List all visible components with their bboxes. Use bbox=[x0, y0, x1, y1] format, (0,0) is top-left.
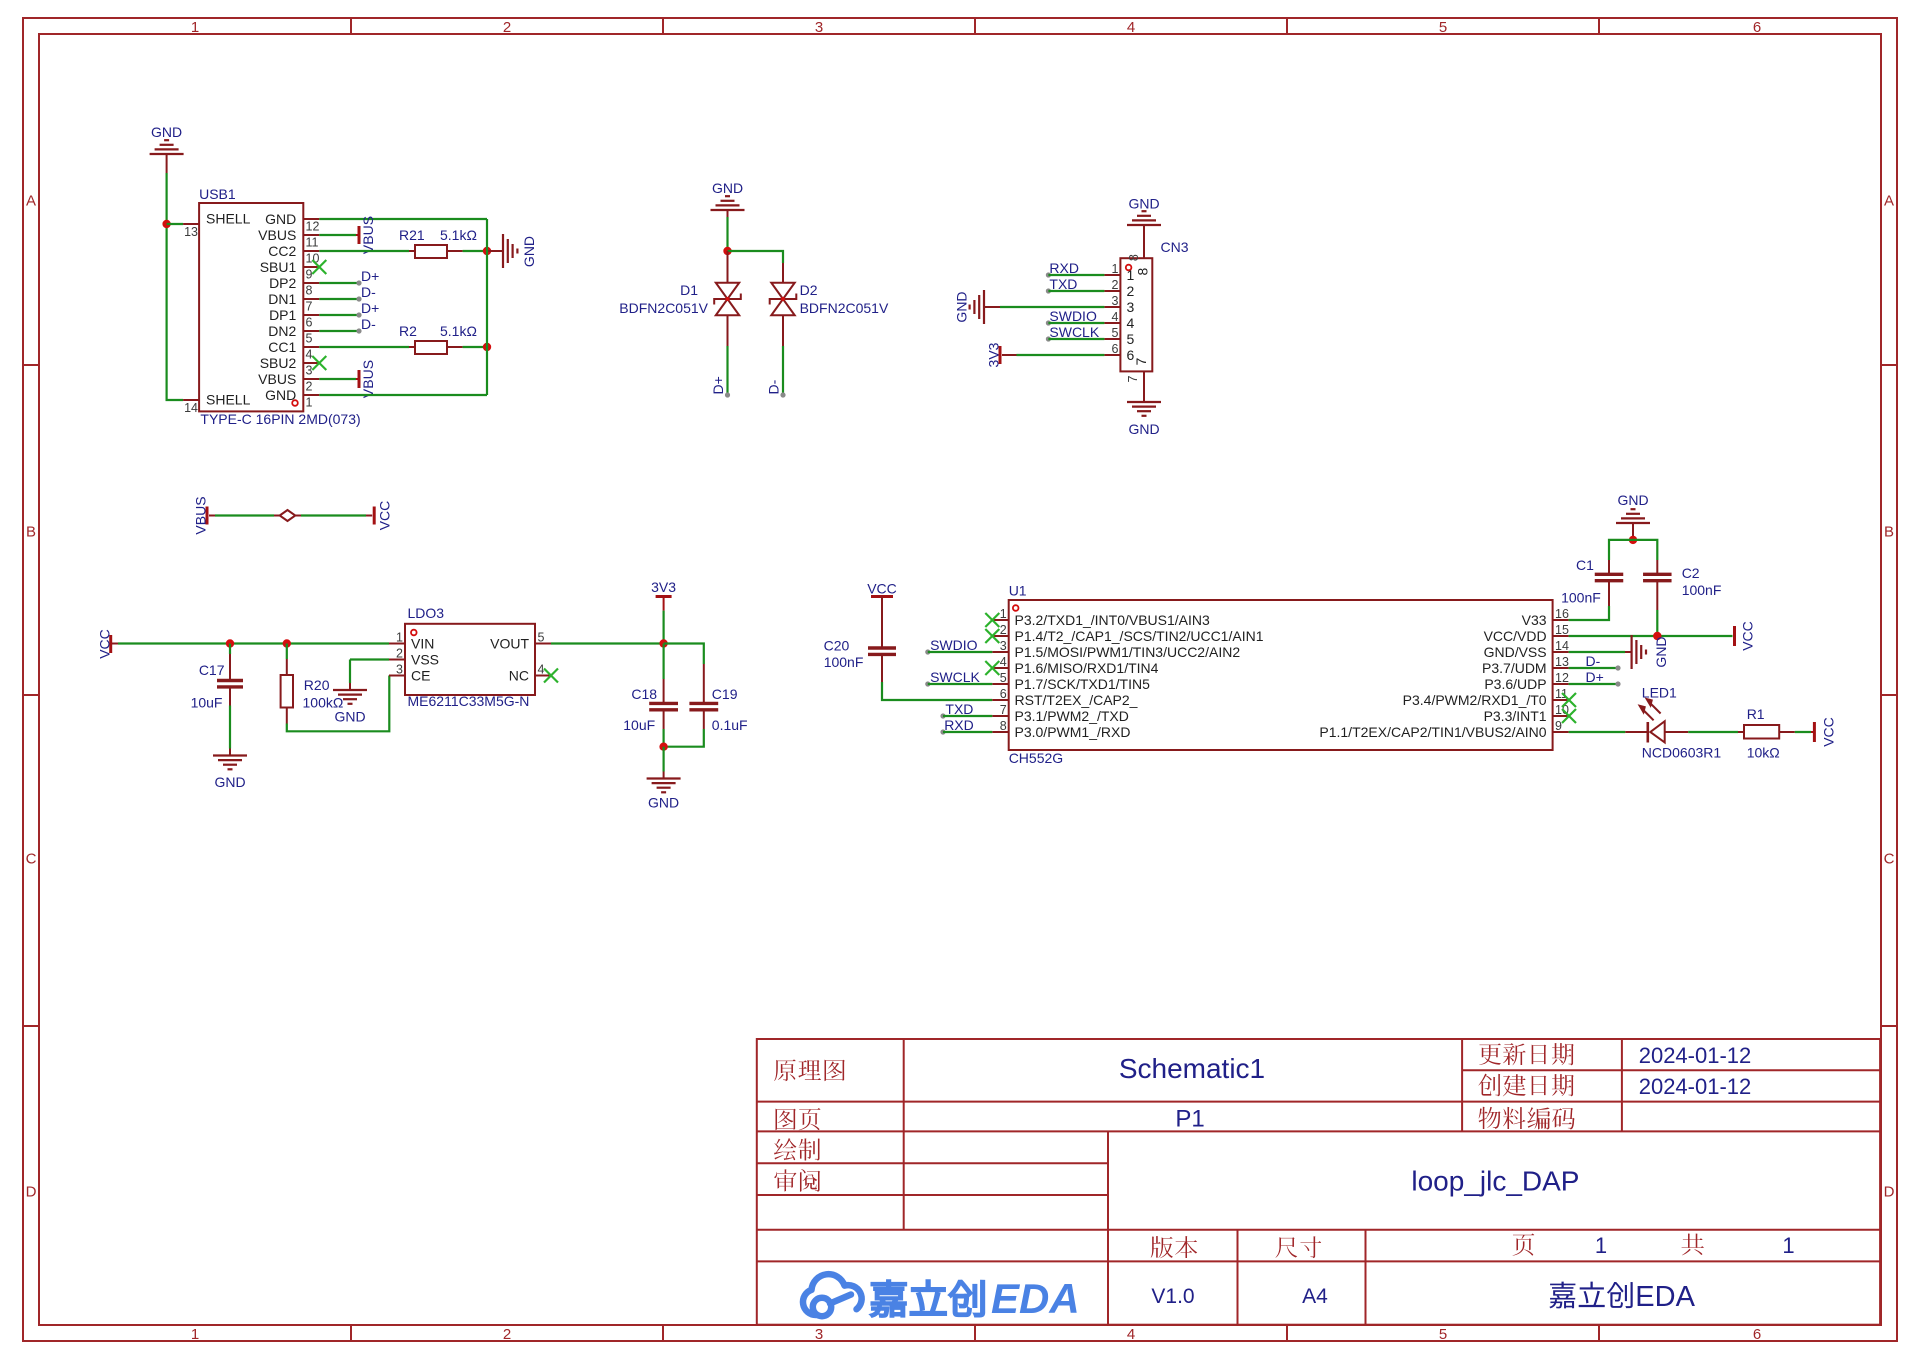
svg-text:GND: GND bbox=[712, 180, 743, 196]
svg-text:C17: C17 bbox=[199, 662, 225, 678]
svg-text:D-: D- bbox=[361, 316, 376, 332]
capacitor C17 bbox=[191, 662, 243, 711]
svg-text:7: 7 bbox=[306, 299, 313, 313]
power flag VCC (LDO input) bbox=[97, 629, 113, 659]
power flag VCC (U1) bbox=[1735, 621, 1756, 651]
wire C2 to VCC/VDD bbox=[1656, 581, 1658, 636]
svg-text:14: 14 bbox=[184, 401, 198, 415]
wire 3V3 down bbox=[662, 611, 664, 644]
svg-text:BDFN2C051V: BDFN2C051V bbox=[619, 300, 708, 316]
capacitor C1 bbox=[1561, 557, 1623, 606]
svg-text:4: 4 bbox=[1127, 19, 1135, 36]
title label 创建日期 bbox=[1478, 1074, 1500, 1097]
svg-text:GND: GND bbox=[214, 774, 245, 790]
svg-text:2: 2 bbox=[1127, 283, 1135, 299]
wire 3V3 to CN3 pin6 bbox=[1002, 354, 1104, 356]
diode D2 BDFN2C051V (TVS) bbox=[770, 282, 889, 316]
node junction above D1 bbox=[723, 247, 731, 255]
svg-text:5: 5 bbox=[538, 631, 545, 645]
svg-text:C19: C19 bbox=[712, 686, 738, 702]
power flag 3V3 (CN3 pin6) bbox=[985, 342, 1001, 367]
wire netflag to VCC bbox=[295, 515, 372, 517]
wire SWCLK to U1 pin5 bbox=[925, 681, 992, 686]
svg-text:5.1kΩ: 5.1kΩ bbox=[440, 323, 477, 339]
wire R1 to VCC bbox=[1779, 731, 1813, 733]
LED LED1 NCD0603R1 bbox=[1638, 685, 1722, 761]
svg-text:5: 5 bbox=[1000, 671, 1007, 685]
title label 更新日期 bbox=[1479, 1043, 1501, 1064]
node junction below C18 bbox=[659, 743, 667, 751]
svg-text:EDA: EDA bbox=[991, 1275, 1080, 1322]
svg-text:P3.4/PWM2/RXD1_/T0: P3.4/PWM2/RXD1_/T0 bbox=[1403, 692, 1547, 708]
ground above CN3 bbox=[1127, 196, 1161, 233]
svg-text:4: 4 bbox=[1127, 315, 1135, 331]
svg-text:SWCLK: SWCLK bbox=[930, 669, 980, 685]
svg-text:R21: R21 bbox=[399, 227, 425, 243]
svg-text:2: 2 bbox=[1111, 278, 1118, 292]
svg-text:SWDIO: SWDIO bbox=[930, 637, 978, 653]
wire D+ stub pin8 bbox=[319, 268, 379, 286]
connector CN3 bbox=[1104, 239, 1188, 382]
svg-text:GND: GND bbox=[954, 291, 970, 322]
wire SWCLK to CN3 pin5 bbox=[1046, 336, 1105, 341]
svg-text:13: 13 bbox=[1555, 655, 1569, 669]
ground at U1 GND/VSS bbox=[1625, 635, 1669, 669]
svg-text:BDFN2C051V: BDFN2C051V bbox=[800, 300, 889, 316]
svg-text:10uF: 10uF bbox=[191, 695, 223, 711]
power flag 3V3 (LDO output) bbox=[651, 579, 676, 611]
node junction R21/bus bbox=[483, 247, 491, 255]
svg-text:5: 5 bbox=[1439, 1326, 1447, 1343]
wire CC1 pin4 to R2 bbox=[319, 346, 415, 348]
svg-text:P3.0/PWM1_/RXD: P3.0/PWM1_/RXD bbox=[1015, 724, 1131, 740]
svg-text:P3.3/INT1: P3.3/INT1 bbox=[1484, 708, 1547, 724]
no-connect X on LDO3 NC pin4 bbox=[544, 669, 558, 683]
wire RXD to CN3 pin1 bbox=[1046, 272, 1105, 277]
svg-text:GND: GND bbox=[334, 709, 365, 725]
svg-text:VCC/VDD: VCC/VDD bbox=[1484, 628, 1547, 644]
svg-text:GND: GND bbox=[1653, 636, 1669, 667]
no-connect X on U1 pin4 bbox=[985, 661, 999, 675]
svg-text:NCD0603R1: NCD0603R1 bbox=[1642, 745, 1722, 761]
wire LED1 to R1 bbox=[1665, 731, 1744, 733]
title label 绘制 bbox=[774, 1138, 796, 1160]
svg-text:DP1: DP1 bbox=[269, 307, 296, 323]
svg-text:R20: R20 bbox=[304, 677, 330, 693]
wire VOUT to 3V3 node bbox=[551, 642, 664, 644]
svg-text:1: 1 bbox=[396, 631, 403, 645]
svg-text:P3.2/TXD1_/INT0/VBUS1/AIN3: P3.2/TXD1_/INT0/VBUS1/AIN3 bbox=[1015, 612, 1211, 628]
no-connect X on U1 pin2 bbox=[985, 629, 999, 643]
regulator LDO3 ME6211C33M5G-N bbox=[389, 605, 551, 709]
ground below C17 bbox=[213, 749, 247, 791]
svg-text:SBU2: SBU2 bbox=[260, 355, 297, 371]
power flag VBUS (pin2) bbox=[356, 360, 376, 398]
svg-text:VSS: VSS bbox=[411, 652, 439, 668]
svg-text:D: D bbox=[1884, 1184, 1895, 1201]
netflag diamond (VBUS-VCC tie) bbox=[280, 510, 296, 521]
wire junction to D2 top bbox=[728, 251, 784, 263]
wire to C19 branch bbox=[664, 644, 704, 665]
svg-text:6: 6 bbox=[306, 315, 313, 329]
title value 嘉立创EDA (cell) bbox=[1549, 1282, 1575, 1309]
svg-text:TYPE-C 16PIN 2MD(073): TYPE-C 16PIN 2MD(073) bbox=[200, 411, 360, 427]
svg-text:GND: GND bbox=[265, 211, 296, 227]
power flag VBUS (pin11) bbox=[356, 216, 376, 254]
wire D- stub pin7 bbox=[319, 284, 376, 302]
svg-text:16: 16 bbox=[1555, 607, 1569, 621]
svg-text:P1.1/T2EX/CAP2/TIN1/VBUS2/AIN0: P1.1/T2EX/CAP2/TIN1/VBUS2/AIN0 bbox=[1319, 724, 1546, 740]
wire RXD to U1 pin8 bbox=[940, 729, 992, 734]
wire C20 to RST bbox=[882, 654, 992, 700]
svg-text:SBU1: SBU1 bbox=[260, 259, 297, 275]
wire CC2 pin10 to R21 bbox=[319, 250, 415, 252]
connector USB1 TYPE-C 16PIN bbox=[183, 186, 361, 427]
wire VCC to LDO3 VIN bbox=[112, 643, 389, 645]
svg-text:3: 3 bbox=[306, 363, 313, 377]
svg-text:VBUS: VBUS bbox=[258, 227, 296, 243]
svg-text:TXD: TXD bbox=[945, 701, 973, 717]
svg-text:CC2: CC2 bbox=[268, 243, 296, 259]
svg-text:D-: D- bbox=[766, 379, 782, 394]
svg-text:R2: R2 bbox=[399, 323, 417, 339]
wire VCC to C20 bbox=[881, 597, 883, 649]
resistor R2 bbox=[399, 323, 477, 354]
svg-text:2024-01-12: 2024-01-12 bbox=[1639, 1043, 1752, 1068]
no-connect X on U1 pin1 bbox=[985, 613, 999, 627]
wire R21 to bus bbox=[447, 250, 487, 252]
wire GND to D1 junction bbox=[726, 217, 728, 251]
svg-text:D+: D+ bbox=[361, 268, 379, 284]
svg-text:D+: D+ bbox=[1586, 669, 1604, 685]
svg-text:P1.5/MOSI/PWM1/TIN3/UCC2/AIN2: P1.5/MOSI/PWM1/TIN3/UCC2/AIN2 bbox=[1015, 644, 1241, 660]
svg-text:DN1: DN1 bbox=[268, 291, 296, 307]
wire R20 top bbox=[286, 644, 288, 676]
svg-text:1: 1 bbox=[1127, 267, 1135, 283]
ground at LDO3 VSS bbox=[333, 683, 367, 725]
wire TXD to CN3 pin2 bbox=[1046, 288, 1105, 293]
wire D+ stub pin6 bbox=[319, 300, 379, 318]
svg-text:C2: C2 bbox=[1682, 565, 1700, 581]
svg-text:14: 14 bbox=[1555, 639, 1569, 653]
ground below C18/C19 bbox=[647, 772, 681, 811]
wire GND to CN3 pin3 bbox=[1000, 306, 1104, 308]
svg-text:B: B bbox=[26, 524, 36, 541]
svg-text:A: A bbox=[26, 193, 36, 210]
svg-text:D+: D+ bbox=[710, 376, 726, 394]
power flag VCC (C20) bbox=[867, 581, 897, 597]
no-connect X on U1 pin11 bbox=[1562, 693, 1576, 707]
wire U1 pin9 to LED1 bbox=[1569, 731, 1648, 733]
wire C17 top bbox=[229, 644, 231, 681]
wire C18 top bbox=[662, 644, 664, 704]
wire C1 to V33 bbox=[1569, 581, 1609, 620]
svg-text:VCC: VCC bbox=[867, 581, 897, 597]
node junction at SHELL pin13 bbox=[162, 220, 170, 228]
wire D2 to D- node bbox=[780, 315, 785, 397]
wire C17 bottom bbox=[229, 687, 231, 749]
svg-text:RST/T2EX_/CAP2_: RST/T2EX_/CAP2_ bbox=[1015, 692, 1138, 708]
svg-text:CH552G: CH552G bbox=[1009, 750, 1063, 766]
svg-text:DN2: DN2 bbox=[268, 323, 296, 339]
wire R20 bottom to CE bbox=[287, 676, 390, 732]
wire D- stub pin5 bbox=[319, 316, 376, 334]
svg-text:VBUS: VBUS bbox=[258, 371, 296, 387]
IC U1 CH552G bbox=[992, 583, 1569, 767]
wire VSS to ground bbox=[350, 660, 389, 684]
node junction R2/bus bbox=[483, 343, 491, 351]
power flag VCC (jumper) bbox=[374, 501, 392, 531]
svg-text:7: 7 bbox=[1126, 375, 1140, 382]
wire GND/VSS bbox=[1569, 651, 1625, 653]
svg-text:3V3: 3V3 bbox=[985, 342, 1001, 367]
svg-text:DP2: DP2 bbox=[269, 275, 296, 291]
wire C18 bottom bbox=[663, 710, 665, 747]
resistor R21 bbox=[399, 227, 477, 258]
svg-text:C1: C1 bbox=[1576, 557, 1594, 573]
svg-text:1: 1 bbox=[306, 395, 313, 409]
svg-text:CN3: CN3 bbox=[1161, 239, 1189, 255]
svg-text:4: 4 bbox=[1000, 655, 1007, 669]
svg-text:CE: CE bbox=[411, 668, 430, 684]
svg-text:P1.6/MISO/RXD1/TIN4: P1.6/MISO/RXD1/TIN4 bbox=[1015, 660, 1159, 676]
wire D1 to D+ node bbox=[725, 315, 730, 397]
svg-text:V33: V33 bbox=[1522, 612, 1547, 628]
svg-text:P3.1/PWM2_/TXD: P3.1/PWM2_/TXD bbox=[1015, 708, 1129, 724]
svg-text:P1.4/T2_/CAP1_/SCS/TIN2/UCC1/A: P1.4/T2_/CAP1_/SCS/TIN2/UCC1/AIN1 bbox=[1015, 628, 1264, 644]
node junction above C1/C2 bbox=[1629, 536, 1637, 544]
svg-text:LED1: LED1 bbox=[1642, 685, 1677, 701]
svg-text:2: 2 bbox=[396, 647, 403, 661]
svg-text:8: 8 bbox=[306, 283, 313, 297]
resistor R1 bbox=[1744, 706, 1780, 761]
svg-text:VCC: VCC bbox=[1821, 717, 1837, 747]
wire GND pin1 to bus bbox=[319, 394, 487, 396]
svg-text:2: 2 bbox=[503, 19, 511, 36]
svg-text:2024-01-12: 2024-01-12 bbox=[1639, 1074, 1752, 1099]
svg-text:P3.6/UDP: P3.6/UDP bbox=[1484, 676, 1546, 692]
svg-text:9: 9 bbox=[306, 267, 313, 281]
svg-text:6: 6 bbox=[1127, 347, 1135, 363]
svg-text:LDO3: LDO3 bbox=[408, 605, 445, 621]
JLCEDA logo bbox=[803, 1274, 1080, 1322]
svg-text:5: 5 bbox=[306, 331, 313, 345]
title label 原理图 bbox=[774, 1059, 795, 1081]
svg-text:VBUS: VBUS bbox=[360, 360, 376, 398]
svg-text:3V3: 3V3 bbox=[651, 579, 676, 595]
node junction C2/VCC bbox=[1653, 632, 1661, 640]
title label 物料编码 bbox=[1479, 1107, 1501, 1129]
wire right vertical bus bbox=[486, 219, 488, 395]
ground left of CN3 pin3 bbox=[954, 290, 1001, 324]
svg-text:D-: D- bbox=[1586, 653, 1601, 669]
svg-text:3: 3 bbox=[396, 663, 403, 677]
wire VBUS pin11 bbox=[319, 234, 356, 236]
no-connect X on U1 pin10 bbox=[1562, 709, 1576, 723]
svg-text:GND: GND bbox=[1128, 196, 1159, 212]
svg-text:3: 3 bbox=[1000, 639, 1007, 653]
svg-text:5: 5 bbox=[1127, 331, 1135, 347]
svg-text:1: 1 bbox=[191, 19, 199, 36]
wire junction to C2 bbox=[1633, 540, 1657, 560]
svg-text:V1.0: V1.0 bbox=[1151, 1285, 1194, 1308]
wire C19 bottom bbox=[664, 710, 704, 747]
svg-text:D: D bbox=[26, 1184, 37, 1201]
svg-text:5: 5 bbox=[1111, 326, 1118, 340]
svg-text:P3.7/UDM: P3.7/UDM bbox=[1482, 660, 1547, 676]
wire R2 to bus bbox=[447, 346, 487, 348]
title block table bbox=[757, 1039, 1880, 1325]
svg-text:9: 9 bbox=[1555, 719, 1562, 733]
svg-text:C20: C20 bbox=[824, 638, 850, 654]
svg-text:4: 4 bbox=[1127, 1326, 1135, 1343]
svg-text:Schematic1: Schematic1 bbox=[1119, 1053, 1265, 1084]
svg-text:VCC: VCC bbox=[377, 501, 393, 531]
svg-text:C: C bbox=[1884, 851, 1895, 868]
svg-text:USB1: USB1 bbox=[199, 186, 236, 202]
ground above C1/C2 bbox=[1616, 492, 1650, 530]
svg-text:SWCLK: SWCLK bbox=[1049, 324, 1099, 340]
svg-text:CC1: CC1 bbox=[268, 339, 296, 355]
svg-text:VCC: VCC bbox=[97, 629, 113, 659]
svg-text:GND: GND bbox=[265, 387, 296, 403]
svg-text:C: C bbox=[26, 851, 37, 868]
svg-text:D-: D- bbox=[361, 284, 376, 300]
wire SWDIO to U1 pin3 bbox=[925, 649, 992, 654]
svg-text:NC: NC bbox=[509, 668, 529, 684]
svg-text:8: 8 bbox=[1134, 267, 1150, 275]
svg-text:1: 1 bbox=[1782, 1233, 1794, 1258]
svg-text:U1: U1 bbox=[1009, 583, 1027, 599]
svg-text:3: 3 bbox=[1111, 294, 1118, 308]
ground above D1 bbox=[711, 180, 745, 217]
power flag VBUS (jumper) bbox=[193, 496, 209, 534]
node junction at R20 bbox=[283, 639, 291, 647]
svg-text:6: 6 bbox=[1111, 342, 1118, 356]
svg-text:D1: D1 bbox=[680, 282, 698, 298]
svg-text:3: 3 bbox=[815, 1326, 823, 1343]
wire SWDIO to CN3 pin4 bbox=[1046, 320, 1105, 325]
capacitor C18 bbox=[623, 686, 678, 733]
svg-text:B: B bbox=[1884, 524, 1894, 541]
svg-text:11: 11 bbox=[306, 235, 319, 249]
wire/pin8 stub top of CN3 bbox=[1143, 232, 1145, 258]
wire junction to D1 top bbox=[727, 251, 729, 283]
power flag VCC (R1) bbox=[1814, 717, 1836, 747]
svg-text:loop_jlc_DAP: loop_jlc_DAP bbox=[1411, 1166, 1579, 1197]
wire VBUS pin2 bbox=[319, 378, 356, 380]
svg-text:GND: GND bbox=[151, 124, 182, 140]
svg-text:A4: A4 bbox=[1302, 1285, 1328, 1308]
wire D- to P3.7/UDM bbox=[1569, 665, 1621, 670]
svg-text:7: 7 bbox=[1000, 703, 1007, 717]
wire to ground below C18 bbox=[662, 747, 664, 772]
svg-text:1: 1 bbox=[191, 1326, 199, 1343]
node junction 3V3/VOUT bbox=[659, 639, 667, 647]
ground below CN3 bbox=[1127, 395, 1161, 437]
svg-text:5: 5 bbox=[1439, 19, 1447, 36]
svg-text:1: 1 bbox=[1000, 607, 1007, 621]
svg-text:10kΩ: 10kΩ bbox=[1747, 745, 1780, 761]
ground (top-left GND net flag) bbox=[150, 124, 184, 161]
node junction at C17 bbox=[226, 639, 234, 647]
svg-text:GND/VSS: GND/VSS bbox=[1484, 644, 1547, 660]
svg-text:15: 15 bbox=[1555, 623, 1569, 637]
svg-text:6: 6 bbox=[1000, 687, 1007, 701]
svg-text:SWDIO: SWDIO bbox=[1049, 308, 1097, 324]
wire gnd stem to junction bbox=[1632, 530, 1634, 540]
svg-text:1: 1 bbox=[1111, 262, 1118, 276]
svg-text:10: 10 bbox=[306, 251, 320, 265]
svg-text:8: 8 bbox=[1127, 254, 1141, 261]
capacitor C19 bbox=[689, 664, 747, 733]
svg-text:100nF: 100nF bbox=[1682, 582, 1722, 598]
title label 共 bbox=[1682, 1233, 1704, 1255]
svg-text:8: 8 bbox=[1000, 719, 1007, 733]
title label 图页 bbox=[775, 1109, 795, 1131]
svg-text:GND: GND bbox=[521, 236, 537, 267]
wire VBUS to netflag bbox=[209, 515, 280, 517]
capacitor C2 bbox=[1643, 565, 1721, 598]
svg-text:D+: D+ bbox=[361, 300, 379, 316]
svg-text:TXD: TXD bbox=[1049, 276, 1077, 292]
svg-text:EDA: EDA bbox=[1635, 1281, 1695, 1313]
svg-text:100nF: 100nF bbox=[824, 654, 864, 670]
svg-text:RXD: RXD bbox=[1049, 260, 1079, 276]
diode D1 BDFN2C051V (TVS) bbox=[619, 282, 741, 316]
wire/pin7 stub bottom of CN3 bbox=[1143, 371, 1145, 402]
title label 审阅 bbox=[774, 1169, 796, 1191]
svg-text:3: 3 bbox=[815, 19, 823, 36]
wire junction to C1 bbox=[1609, 540, 1633, 560]
svg-text:7: 7 bbox=[1133, 357, 1149, 365]
svg-text:12: 12 bbox=[1555, 671, 1569, 685]
svg-text:SHELL: SHELL bbox=[206, 392, 251, 408]
svg-text:VOUT: VOUT bbox=[490, 636, 529, 652]
svg-text:2: 2 bbox=[1000, 623, 1007, 637]
svg-text:1: 1 bbox=[1595, 1233, 1607, 1258]
no-connect X on SBU1 pin 9 bbox=[312, 260, 326, 274]
svg-text:D2: D2 bbox=[800, 282, 818, 298]
svg-text:2: 2 bbox=[306, 379, 313, 393]
svg-text:R1: R1 bbox=[1747, 706, 1765, 722]
svg-text:RXD: RXD bbox=[944, 717, 974, 733]
svg-text:4: 4 bbox=[306, 347, 313, 361]
wire GND pin12 to right bus bbox=[319, 218, 487, 220]
wire junction to pin13 bbox=[167, 223, 184, 225]
wire TXD to U1 pin7 bbox=[940, 713, 992, 718]
svg-text:100nF: 100nF bbox=[1561, 590, 1601, 606]
ground right of R21 bbox=[487, 234, 537, 268]
title label 尺寸 bbox=[1275, 1237, 1297, 1258]
no-connect X on SBU2 pin 3 bbox=[312, 356, 326, 370]
wire GND to USB1 SHELL/pin14 bbox=[167, 161, 184, 400]
svg-text:P1: P1 bbox=[1175, 1106, 1204, 1133]
title label 页 bbox=[1513, 1233, 1535, 1255]
svg-text:6: 6 bbox=[1753, 1326, 1761, 1343]
svg-text:VCC: VCC bbox=[1740, 621, 1756, 651]
svg-text:6: 6 bbox=[1753, 19, 1761, 36]
svg-text:3: 3 bbox=[1127, 299, 1135, 315]
svg-text:C18: C18 bbox=[631, 686, 657, 702]
svg-text:GND: GND bbox=[1617, 492, 1648, 508]
svg-text:GND: GND bbox=[648, 795, 679, 811]
svg-text:5.1kΩ: 5.1kΩ bbox=[440, 227, 477, 243]
svg-text:12: 12 bbox=[306, 219, 320, 233]
svg-text:SHELL: SHELL bbox=[206, 211, 251, 227]
title label 版本 bbox=[1151, 1236, 1173, 1258]
svg-text:4: 4 bbox=[1111, 310, 1118, 324]
